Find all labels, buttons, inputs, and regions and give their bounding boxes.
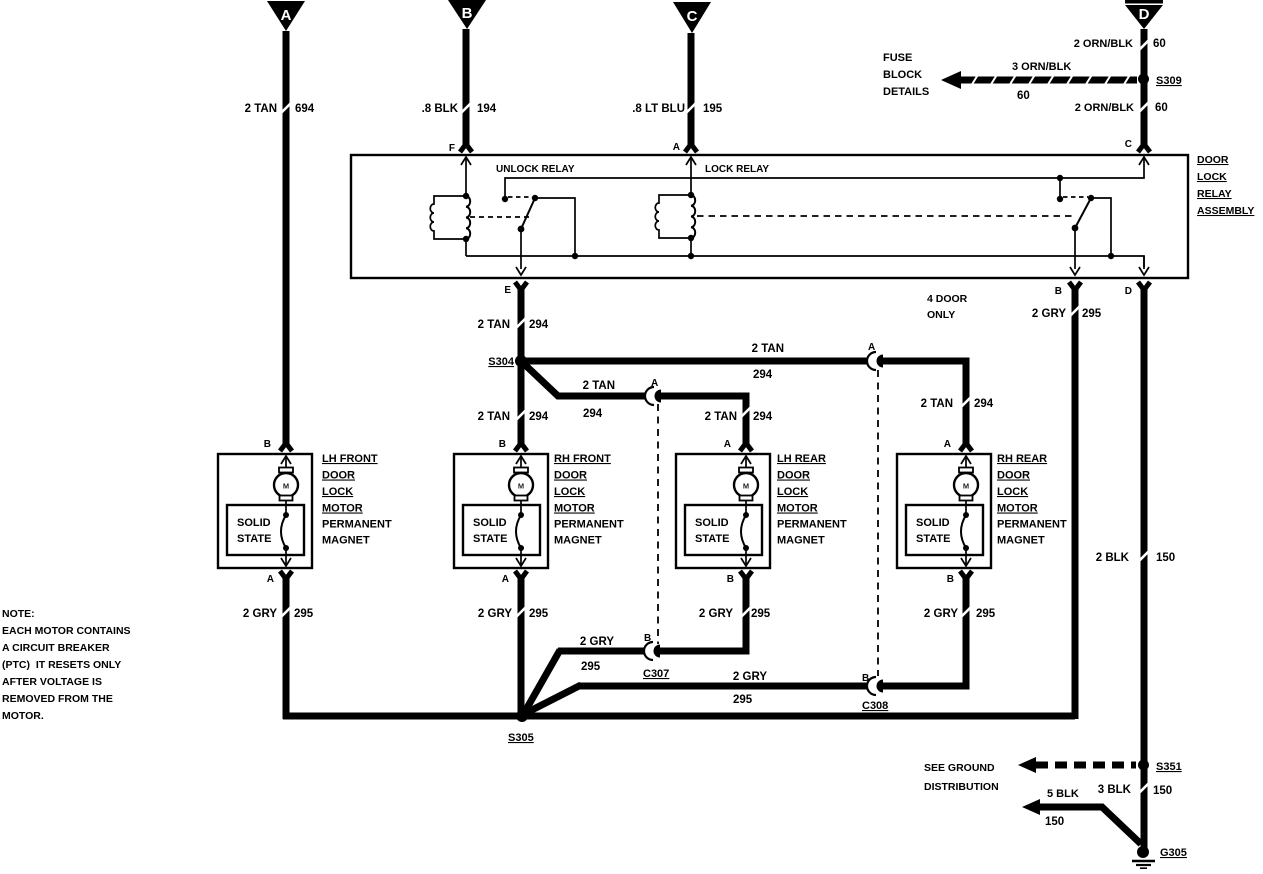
- svg-text:A CIRCUIT BREAKER: A CIRCUIT BREAKER: [2, 642, 110, 654]
- lock coil mechanical link (dashed): [697, 215, 1074, 217]
- unlock coil mechanical link (dashed): [470, 216, 530, 218]
- svg-text:S351: S351: [1156, 761, 1182, 773]
- svg-text:A: A: [267, 574, 274, 585]
- wire 2 GRY 295 LH front motor A to S305 bus: [280, 571, 292, 719]
- svg-text:B: B: [947, 574, 954, 585]
- label 2 TAN over diag run: [583, 380, 615, 392]
- inner bus wire to pin D: [466, 256, 1149, 275]
- motor M3 solid state box: [685, 505, 762, 555]
- pin D label: [1125, 286, 1132, 297]
- motor M4 label: [997, 453, 1067, 547]
- connector C308 pin A: [867, 342, 883, 370]
- unlock switch blade: [518, 198, 535, 232]
- label 2 GRY 295 (relay B wire): [1032, 308, 1102, 320]
- motor M4 RH REAR DOOR box: [897, 454, 991, 568]
- node bus-lock switch: [1108, 253, 1114, 259]
- svg-text:C: C: [1125, 139, 1132, 150]
- svg-text:LOCK: LOCK: [554, 486, 585, 498]
- svg-text:60: 60: [1017, 90, 1030, 102]
- motor M1 pin B (top): [264, 439, 291, 469]
- svg-text:S309: S309: [1156, 75, 1182, 87]
- splice S351: [1138, 760, 1182, 774]
- connector triangle B: [448, 0, 486, 29]
- svg-text:LOCK: LOCK: [322, 486, 353, 498]
- wire 2 GRY 295 RH front motor A to S305: [515, 571, 527, 716]
- label 150 (5 BLK): [1045, 816, 1064, 828]
- door lock relay assembly box: [351, 155, 1188, 278]
- svg-text:B: B: [1055, 286, 1062, 297]
- svg-text:294: 294: [583, 408, 603, 420]
- wire 2 BLK 150 relay pin D to S351 and G305: [1138, 282, 1150, 848]
- motor M4 pin B (bottom): [947, 548, 971, 585]
- motor M3 circuit breaker (PTC): [741, 512, 749, 551]
- svg-text:A: A: [724, 439, 731, 450]
- svg-text:295: 295: [733, 694, 753, 706]
- label 2 GRY 295 (LH front): [243, 608, 314, 620]
- motor M4 armature: [954, 468, 978, 516]
- label .8 LT BLU 195: [632, 103, 723, 115]
- svg-text:A: A: [673, 142, 680, 153]
- label LOCK RELAY: [705, 164, 769, 175]
- svg-text:RELAY: RELAY: [1197, 188, 1232, 200]
- svg-text:2 TAN: 2 TAN: [478, 411, 510, 423]
- svg-text:M: M: [963, 482, 969, 491]
- wire 2 GRY 295 relay pin B down to bus (4 door only): [1069, 282, 1081, 719]
- svg-text:B: B: [499, 439, 506, 450]
- svg-text:A: A: [944, 439, 951, 450]
- svg-text:SEE GROUND: SEE GROUND: [924, 762, 995, 774]
- svg-text:295: 295: [294, 608, 314, 620]
- svg-text:LH FRONT: LH FRONT: [322, 453, 378, 465]
- connector C308 body (dashed): [877, 370, 879, 676]
- label 2 TAN 294 (E wire): [478, 319, 549, 331]
- svg-text:.8 BLK: .8 BLK: [422, 103, 459, 115]
- connector C307 body (dashed): [657, 404, 659, 644]
- connector triangle C: [673, 2, 711, 33]
- label 3 BLK 150: [1098, 784, 1172, 797]
- svg-text:E: E: [504, 285, 511, 296]
- label 2 BLK 150: [1096, 552, 1175, 564]
- svg-text:2 TAN: 2 TAN: [583, 380, 615, 392]
- label 60: [1017, 90, 1030, 102]
- ground G305: [1132, 846, 1187, 868]
- wire 2 TAN 294 pin E to splice S304: [515, 282, 527, 438]
- node bus-unlock switch: [572, 253, 578, 259]
- label 2 ORN/BLK 60 (lower): [1075, 102, 1168, 114]
- svg-text:STATE: STATE: [916, 533, 950, 545]
- motor M1 circuit breaker (PTC): [281, 512, 289, 551]
- label 2 ORN/BLK 60 (upper): [1074, 38, 1166, 50]
- motor M3 pin A (top): [724, 439, 751, 469]
- label 295 under C307 run: [581, 661, 601, 673]
- label 2 TAN 694: [245, 103, 315, 115]
- label 2 GRY over C307 run: [580, 636, 614, 648]
- label 2 GRY 295 (LH rear drop): [699, 608, 771, 620]
- svg-text:MAGNET: MAGNET: [777, 535, 825, 547]
- svg-text:PERMANENT: PERMANENT: [777, 519, 847, 531]
- svg-text:RH FRONT: RH FRONT: [554, 453, 611, 465]
- label 294 under diag run: [583, 408, 603, 420]
- svg-text:B: B: [644, 633, 651, 644]
- hatched wire 3 ORN/BLK 60 to fuse block: [941, 71, 1137, 89]
- svg-text:LOCK: LOCK: [1197, 171, 1227, 183]
- svg-text:DOOR: DOOR: [997, 470, 1030, 482]
- svg-text:A: A: [281, 7, 292, 24]
- lock switch moving contact: [1088, 195, 1094, 201]
- svg-text:3 ORN/BLK: 3 ORN/BLK: [1012, 61, 1071, 73]
- lock switch open position (dashed): [1063, 196, 1088, 198]
- svg-text:150: 150: [1153, 785, 1172, 797]
- label 2 GRY 295 (RH rear drop): [924, 608, 996, 620]
- svg-text:MAGNET: MAGNET: [322, 535, 370, 547]
- connector C308 pin B: [862, 673, 888, 712]
- svg-text:A: A: [868, 342, 875, 353]
- svg-text:295: 295: [529, 608, 549, 620]
- svg-text:LH REAR: LH REAR: [777, 453, 826, 465]
- svg-text:2 ORN/BLK: 2 ORN/BLK: [1075, 102, 1134, 114]
- svg-text:3 BLK: 3 BLK: [1098, 784, 1132, 796]
- label .8 BLK 194: [422, 103, 497, 115]
- motor M1 label: [322, 453, 392, 547]
- label 3 ORN/BLK: [1012, 61, 1071, 73]
- svg-text:AFTER VOLTAGE IS: AFTER VOLTAGE IS: [2, 676, 102, 688]
- motor M2 solid state box: [463, 505, 540, 555]
- connector C307 pin A: [645, 378, 661, 405]
- svg-text:B: B: [264, 439, 271, 450]
- wire 2 TAN 294 S304 to LH rear motor: [521, 361, 752, 451]
- motor M3 pin B (bottom): [727, 548, 751, 585]
- svg-text:2 TAN: 2 TAN: [705, 411, 737, 423]
- motor M4 circuit breaker (PTC): [961, 512, 969, 551]
- svg-text:294: 294: [529, 319, 549, 331]
- svg-text:2 TAN: 2 TAN: [752, 343, 784, 355]
- ground bus wire to S305: [283, 713, 1075, 720]
- svg-text:.8 LT BLU: .8 LT BLU: [632, 103, 685, 115]
- pin B wire from lock switch pivot: [1070, 228, 1080, 275]
- svg-text:NOTE:: NOTE:: [2, 608, 35, 620]
- unlock switch moving contact: [532, 195, 538, 201]
- svg-text:(PTC) IT RESETS ONLY: (PTC) IT RESETS ONLY: [2, 659, 121, 671]
- wire 2 GRY 295 LH rear motor B to C307 to S305: [523, 571, 752, 715]
- wire 2 TAN 294 S304 to RH front motor: [515, 410, 527, 451]
- wire 2 ORN/BLK 60 from D to splice S309: [1139, 29, 1149, 79]
- svg-text:STATE: STATE: [695, 533, 729, 545]
- svg-text:294: 294: [529, 411, 549, 423]
- lock switch stationary contact: [1057, 196, 1063, 202]
- motor M3 LH REAR DOOR box: [676, 454, 770, 568]
- label 2 TAN 294 (RH front drop): [478, 411, 549, 423]
- label 2 TAN 294 (LH rear drop): [705, 407, 773, 423]
- label 295 under C308 run: [733, 694, 753, 706]
- motor M2 pin B (top): [499, 439, 526, 469]
- svg-text:MAGNET: MAGNET: [997, 535, 1045, 547]
- svg-text:G305: G305: [1160, 847, 1187, 859]
- node bus-lock coil: [688, 253, 694, 259]
- svg-text:STATE: STATE: [473, 533, 507, 545]
- label 2 GRY over C308 run: [733, 671, 767, 683]
- unlock switch open position (dashed): [508, 196, 532, 198]
- svg-text:LOCK RELAY: LOCK RELAY: [705, 164, 769, 175]
- svg-text:C: C: [687, 8, 698, 25]
- svg-text:MAGNET: MAGNET: [554, 535, 602, 547]
- motor M1 armature: [274, 468, 298, 516]
- wire .8 LT BLU 195 from C to relay pin A: [685, 33, 697, 152]
- svg-text:STATE: STATE: [237, 533, 271, 545]
- pin A: [673, 142, 696, 195]
- svg-text:294: 294: [753, 369, 773, 381]
- splice S304: [488, 355, 527, 368]
- splice S309: [1138, 74, 1182, 88]
- pin C: [1125, 139, 1149, 165]
- svg-text:EACH MOTOR CONTAINS: EACH MOTOR CONTAINS: [2, 625, 131, 637]
- svg-text:5 BLK: 5 BLK: [1047, 788, 1079, 800]
- dashed wire to ground distribution: [1018, 757, 1136, 773]
- label UNLOCK RELAY: [496, 164, 575, 175]
- svg-text:M: M: [283, 482, 289, 491]
- svg-text:ASSEMBLY: ASSEMBLY: [1197, 205, 1254, 217]
- lock switch blade: [1072, 198, 1091, 231]
- svg-text:60: 60: [1153, 38, 1166, 50]
- svg-text:DOOR: DOOR: [322, 470, 355, 482]
- svg-text:DOOR: DOOR: [554, 470, 587, 482]
- svg-text:D: D: [1139, 6, 1150, 23]
- motor M2 label: [554, 453, 624, 547]
- label FUSE BLOCK DETAILS: [883, 52, 929, 98]
- svg-text:150: 150: [1156, 552, 1175, 564]
- svg-text:60: 60: [1155, 102, 1168, 114]
- svg-text:2 BLK: 2 BLK: [1096, 552, 1130, 564]
- svg-text:C307: C307: [643, 668, 669, 680]
- svg-text:MOTOR: MOTOR: [997, 503, 1038, 515]
- svg-text:295: 295: [976, 608, 996, 620]
- wire lock moving contact to bus: [1091, 198, 1111, 256]
- svg-text:PERMANENT: PERMANENT: [322, 519, 392, 531]
- label 4 DOOR ONLY: [927, 293, 968, 321]
- svg-text:PERMANENT: PERMANENT: [997, 519, 1067, 531]
- svg-text:ONLY: ONLY: [927, 309, 955, 321]
- motor M2 armature: [509, 468, 533, 516]
- wire 2 TAN 694 from A to LH front motor pin B: [280, 31, 292, 451]
- wire unlock moving contact to bus: [535, 198, 575, 256]
- svg-text:MOTOR: MOTOR: [554, 503, 595, 515]
- node feed-lock switch: [1057, 175, 1063, 199]
- svg-text:MOTOR.: MOTOR.: [2, 710, 44, 722]
- wire 2 ORN/BLK 60 from S309 to relay pin C: [1138, 79, 1150, 152]
- label 5 BLK: [1047, 788, 1079, 800]
- svg-text:S304: S304: [488, 356, 515, 368]
- motor M2 RH FRONT DOOR box: [454, 454, 548, 568]
- unlock relay coil: [430, 193, 470, 242]
- feed wire from pin C to unlock switch contact: [505, 159, 1144, 199]
- svg-text:PERMANENT: PERMANENT: [554, 519, 624, 531]
- wire .8 BLK 194 from B to relay pin F: [460, 29, 472, 152]
- label DOOR LOCK RELAY ASSEMBLY: [1197, 154, 1254, 217]
- svg-text:B: B: [862, 673, 869, 684]
- connector C307 pin B: [643, 633, 669, 680]
- svg-text:MOTOR: MOTOR: [777, 503, 818, 515]
- label 294 under S304 run: [753, 369, 773, 381]
- svg-text:2 GRY: 2 GRY: [699, 608, 733, 620]
- svg-text:195: 195: [703, 103, 723, 115]
- svg-text:F: F: [449, 143, 455, 154]
- svg-text:BLOCK: BLOCK: [883, 69, 922, 81]
- svg-text:2 TAN: 2 TAN: [478, 319, 510, 331]
- svg-text:M: M: [518, 482, 524, 491]
- svg-text:194: 194: [477, 103, 497, 115]
- svg-text:B: B: [727, 574, 734, 585]
- wire unlock coil to inner ground bus: [465, 239, 467, 256]
- svg-text:B: B: [462, 5, 473, 22]
- svg-text:A: A: [502, 574, 509, 585]
- svg-text:2 TAN: 2 TAN: [921, 398, 953, 410]
- svg-text:REMOVED FROM THE: REMOVED FROM THE: [2, 693, 113, 705]
- label 2 TAN 294 (RH rear drop): [921, 397, 994, 410]
- svg-text:2 ORN/BLK: 2 ORN/BLK: [1074, 38, 1133, 50]
- splice S305: [508, 710, 534, 744]
- wire lock coil to inner bus: [690, 238, 692, 256]
- pin E wire from unlock switch pivot: [516, 229, 526, 275]
- svg-text:M: M: [743, 482, 749, 491]
- svg-text:MOTOR: MOTOR: [322, 503, 363, 515]
- svg-text:DOOR: DOOR: [777, 470, 810, 482]
- svg-text:294: 294: [974, 398, 994, 410]
- pin F: [449, 143, 471, 196]
- label SEE GROUND DISTRIBUTION: [924, 762, 999, 793]
- connector triangle A: [267, 1, 305, 31]
- svg-text:SOLID: SOLID: [695, 517, 729, 529]
- pin B label: [1055, 286, 1062, 297]
- unlock switch stationary contact: [502, 196, 508, 202]
- svg-text:150: 150: [1045, 816, 1064, 828]
- motor M4 pin A (top): [944, 439, 971, 469]
- svg-text:2 GRY: 2 GRY: [478, 608, 512, 620]
- svg-text:694: 694: [295, 103, 315, 115]
- svg-text:RH REAR: RH REAR: [997, 453, 1047, 465]
- svg-text:2 TAN: 2 TAN: [245, 103, 277, 115]
- svg-text:2 GRY: 2 GRY: [243, 608, 277, 620]
- svg-text:A: A: [651, 378, 658, 389]
- svg-text:2 GRY: 2 GRY: [924, 608, 958, 620]
- svg-text:2 GRY: 2 GRY: [1032, 308, 1066, 320]
- svg-text:SOLID: SOLID: [237, 517, 271, 529]
- svg-text:DISTRIBUTION: DISTRIBUTION: [924, 781, 999, 793]
- svg-text:C308: C308: [862, 700, 888, 712]
- svg-text:S305: S305: [508, 732, 534, 744]
- motor M3 label: [777, 453, 847, 547]
- note text: [2, 608, 131, 722]
- svg-text:SOLID: SOLID: [916, 517, 950, 529]
- svg-text:D: D: [1125, 286, 1132, 297]
- svg-text:DETAILS: DETAILS: [883, 86, 929, 98]
- wire 2 TAN 294 S304 to RH rear motor (4 door only): [521, 361, 972, 451]
- motor M1 solid state box: [227, 505, 304, 555]
- pin E label: [504, 285, 511, 296]
- svg-text:2 GRY: 2 GRY: [733, 671, 767, 683]
- motor M4 solid state box: [906, 505, 983, 555]
- motor M1 pin A (bottom): [267, 548, 291, 585]
- label 2 GRY 295 (RH front): [478, 608, 549, 620]
- svg-text:LOCK: LOCK: [997, 486, 1028, 498]
- motor M3 armature: [734, 468, 758, 516]
- wire 2 GRY 295 RH rear motor B to C308 to S305: [524, 571, 972, 714]
- svg-text:UNLOCK RELAY: UNLOCK RELAY: [496, 164, 575, 175]
- connector triangle D: [1125, 0, 1163, 29]
- wire 5 BLK 150 to ground: [1022, 799, 1141, 844]
- svg-text:294: 294: [753, 411, 773, 423]
- svg-text:295: 295: [751, 608, 771, 620]
- svg-text:2 GRY: 2 GRY: [580, 636, 614, 648]
- svg-text:295: 295: [1082, 308, 1102, 320]
- svg-text:4 DOOR: 4 DOOR: [927, 293, 968, 305]
- lock relay coil: [655, 192, 695, 241]
- motor M1 LH FRONT DOOR box: [218, 454, 312, 568]
- svg-text:SOLID: SOLID: [473, 517, 507, 529]
- svg-text:LOCK: LOCK: [777, 486, 808, 498]
- motor M2 pin A (bottom): [502, 548, 526, 585]
- label 2 TAN over S304 run: [752, 343, 784, 355]
- svg-text:DOOR: DOOR: [1197, 154, 1229, 166]
- motor M2 circuit breaker (PTC): [516, 512, 524, 551]
- svg-text:295: 295: [581, 661, 601, 673]
- svg-text:FUSE: FUSE: [883, 52, 912, 64]
